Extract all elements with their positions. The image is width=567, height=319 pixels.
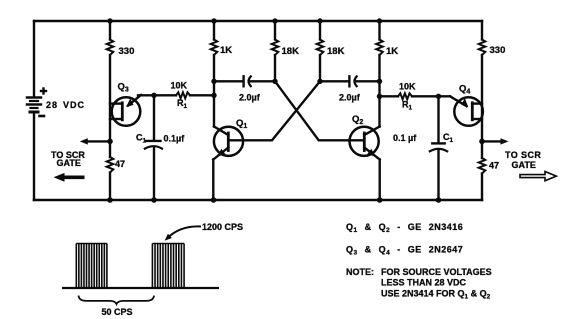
- junction node R1-right at 1K-right column: [377, 94, 382, 99]
- junction top rail at 18K-right column: [317, 18, 322, 23]
- left gate arrow (filled): [54, 173, 85, 182]
- transistor Q2 (2N3416): [350, 127, 380, 201]
- svg-text:10K: 10K: [399, 82, 416, 92]
- svg-text:2.0µf: 2.0µf: [339, 93, 361, 103]
- wire left output tap: [86, 140, 110, 142]
- wire 1K-left column: [213, 21, 215, 127]
- svg-text:330: 330: [119, 46, 135, 57]
- transistor Q3 (UJT 2N2647): [110, 95, 141, 126]
- capacitor C1 left: [145, 95, 162, 200]
- resistor 18K right: [317, 40, 324, 56]
- junction top rail at 1K-right column: [377, 18, 382, 23]
- wire right output tap: [482, 140, 503, 142]
- junction bottom rail at C1-right column: [436, 197, 442, 203]
- junction node R1-left at 1K-left column: [211, 93, 216, 98]
- junction top rail at 1K-left column: [211, 18, 216, 23]
- battery plus mark: [41, 89, 46, 94]
- junction node Q2 collector / 2.0uf-right: [377, 79, 382, 84]
- Q3 emitter arrowhead: [126, 98, 133, 107]
- resistor 18K left: [272, 40, 279, 56]
- Q4 emitter arrowhead: [461, 98, 468, 107]
- junction bottom rail at Q2 emitter: [377, 197, 383, 203]
- junction node C1-left tap on R1-left line: [151, 93, 156, 98]
- svg-text:47: 47: [115, 159, 125, 169]
- right gate arrow (open): [520, 172, 556, 181]
- svg-text:GATE: GATE: [57, 158, 81, 168]
- junction node Q1 collector / 2.0uf-left: [211, 79, 216, 84]
- 1200 CPS pointer arrow: [165, 226, 201, 240]
- Q1 emitter arrowhead: [217, 149, 225, 157]
- capacitor 2.0uf left: [214, 76, 275, 86]
- junction node left output tap: [107, 139, 113, 145]
- capacitor C1 right: [430, 96, 447, 200]
- resistor 330 right: [479, 40, 486, 56]
- wire cross-coupling 18K-right to Q1 base: [228, 81, 320, 140]
- wire right column (330 / Q4 / 47): [481, 21, 483, 200]
- wire bottom rail: [34, 199, 482, 202]
- left output arrowhead: [80, 138, 88, 144]
- resistor R1 10K left: [176, 92, 190, 98]
- waveform burst 2: [152, 244, 184, 289]
- battery B1 28 VDC: [27, 21, 41, 200]
- svg-text:FOR SOURCE VOLTAGES: FOR SOURCE VOLTAGES: [381, 267, 492, 277]
- svg-text:0.1 µf: 0.1 µf: [393, 133, 417, 143]
- battery minus mark: [40, 115, 45, 118]
- wire R1 10K left line: [138, 94, 176, 96]
- svg-text:0.1µf: 0.1µf: [164, 134, 186, 144]
- svg-text:1200 CPS: 1200 CPS: [202, 222, 243, 232]
- svg-text:330: 330: [490, 45, 506, 56]
- junction node C1-right tap on R1-right line: [436, 94, 441, 99]
- junction node right output tap: [479, 139, 485, 145]
- capacitor 2.0uf right: [320, 76, 380, 86]
- transistor Q1 (2N3416): [213, 127, 243, 201]
- junction top rail at 330-left column: [107, 18, 112, 23]
- svg-text:TO SCR: TO SCR: [505, 150, 541, 160]
- svg-text:10K: 10K: [171, 81, 188, 91]
- resistor 47 left: [107, 157, 114, 173]
- svg-text:47: 47: [489, 161, 499, 171]
- junction bottom rail at 47-left column: [107, 197, 113, 203]
- wire R1 left to 1K column: [190, 94, 214, 96]
- junction top rail at 18K-left column: [272, 18, 277, 23]
- svg-text:LESS THAN 28 VDC: LESS THAN 28 VDC: [381, 278, 467, 288]
- resistor 330 left: [107, 40, 114, 56]
- svg-text:18K: 18K: [282, 46, 300, 57]
- svg-text:50 CPS: 50 CPS: [102, 307, 133, 317]
- junction node 18K-right / 2.0uf-right: [317, 79, 322, 84]
- resistor R1 10K right: [398, 93, 412, 99]
- svg-text:28 VDC: 28 VDC: [46, 100, 85, 110]
- label TO SCR GATE right: [505, 150, 541, 170]
- svg-text:18K: 18K: [327, 46, 345, 57]
- junction bottom rail at Q1 emitter: [211, 197, 217, 203]
- junction node 18K-left / 2.0uf-left: [272, 79, 277, 84]
- resistor 1K right: [376, 40, 383, 56]
- wire left column (330 / Q3 / 47): [109, 21, 111, 200]
- right output arrowhead: [501, 138, 509, 144]
- junction bottom rail at C1-left column: [151, 197, 157, 203]
- 50 CPS brace: [79, 296, 155, 304]
- svg-text:1K: 1K: [386, 46, 398, 57]
- label TO SCR GATE left: [51, 150, 85, 168]
- wire cross-coupling 18K-left to Q2 base: [275, 81, 364, 140]
- svg-text:NOTE:: NOTE:: [346, 267, 374, 277]
- waveform baseline: [62, 287, 219, 289]
- wire R1 right to Q4 emitter: [412, 95, 450, 97]
- wire R1 10K right line: [380, 95, 399, 97]
- transistor Q4 (UJT 2N2647): [450, 96, 483, 125]
- wire 18K-left column: [274, 21, 276, 81]
- resistor 1K left: [211, 40, 218, 56]
- wire 18K-right column: [319, 21, 321, 81]
- waveform burst 1: [76, 244, 107, 289]
- resistor 47 right: [479, 158, 486, 174]
- Q2 emitter arrowhead: [367, 149, 375, 157]
- wire 1K-right column: [378, 21, 380, 127]
- svg-text:1K: 1K: [220, 45, 232, 56]
- wire top rail: [34, 20, 482, 22]
- svg-text:GATE: GATE: [512, 160, 536, 170]
- svg-text:2.0µf: 2.0µf: [239, 93, 261, 103]
